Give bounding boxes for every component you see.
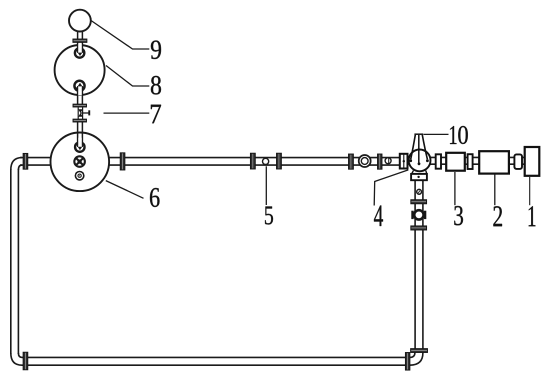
drop pipe upper flange <box>411 200 427 204</box>
valve 4 bottom neck <box>412 171 427 174</box>
nozzle top of vessel 8 <box>73 44 86 59</box>
label 8 <box>151 76 161 95</box>
leader line 10 <box>424 133 449 135</box>
component 1 box <box>525 147 540 176</box>
label 10 <box>450 126 457 144</box>
leader line 4 <box>374 170 408 206</box>
valve 7 upper flange <box>73 104 87 107</box>
label 4 <box>374 205 383 226</box>
wire: pipe 8 to valve 7 <box>78 91 83 105</box>
wire: main horizontal pipe vessel 6 to valve 4 <box>109 158 400 166</box>
elbow top-left <box>11 158 22 170</box>
fitting middle of vessel 6 <box>73 155 86 168</box>
leader line 8 <box>106 66 149 87</box>
label 2 <box>493 206 502 226</box>
wire: bottom horizontal pipe <box>22 357 406 365</box>
label 3 <box>454 206 463 225</box>
fitting bottom of vessel 6 <box>75 171 85 181</box>
wire: left vertical pipe <box>11 169 19 354</box>
leader line 2 <box>494 175 496 206</box>
vessel 9 (small top tank) <box>69 10 91 32</box>
valve 4 body circle <box>409 150 431 172</box>
flange after meter <box>378 154 383 169</box>
label 9 <box>151 41 161 59</box>
bottom-right vertical flange on bottom pipe <box>405 353 410 371</box>
label 7 <box>151 105 161 124</box>
wire: right vertical pipe <box>415 181 423 354</box>
leader line 3 <box>454 172 456 205</box>
wire: left horizontal pipe from elbow to vessel 6 <box>20 158 51 166</box>
leader line 6 <box>106 181 144 199</box>
wire: horizontal pipe valve 4 to component 1 <box>430 157 525 164</box>
nozzle top of vessel 6 <box>73 138 86 153</box>
flange before meter <box>349 154 354 169</box>
flange between 2 and 1 <box>514 154 522 169</box>
valve 4 cone <box>409 134 428 165</box>
wire: pipe 9 to 8 <box>78 31 83 51</box>
leader line 7 <box>104 112 150 114</box>
flange left elbow top <box>23 153 28 169</box>
elbow bottom-right <box>410 353 423 365</box>
bottom-right horizontal flange on vertical pipe <box>411 349 428 353</box>
bottom-left flange <box>23 352 28 370</box>
label 6 <box>150 188 160 207</box>
small circle on drop pipe <box>417 189 422 194</box>
flange between 3 and 2 <box>468 154 473 169</box>
valve 4 bottom box <box>411 174 427 180</box>
leader line 5 <box>265 166 267 205</box>
flange below vessel 9 <box>73 39 87 42</box>
valve 4 left connector box <box>400 154 408 169</box>
component 5 left flange <box>250 153 255 169</box>
vessel 6 (large tank) <box>51 133 110 192</box>
vessel 8 (middle tank) <box>55 45 105 95</box>
leader line 1 <box>529 177 531 205</box>
component 3 box <box>446 153 465 171</box>
valve 7 body <box>78 107 83 119</box>
component 2 box <box>479 151 509 173</box>
elbow bottom-left <box>11 353 22 365</box>
meter double circle <box>359 155 371 167</box>
leader line 9 <box>91 21 149 50</box>
drop pipe valve double circle <box>411 209 426 221</box>
valve 4 right flange <box>436 154 441 168</box>
label 1 <box>529 206 536 226</box>
label 5 <box>265 206 273 224</box>
component 5 right flange <box>277 153 282 169</box>
component 5 sight glass circle <box>263 158 269 164</box>
wire: pipe valve 7 to vessel 6 <box>78 121 83 144</box>
small gauge circle <box>385 158 391 164</box>
valve 7 lower flange <box>73 119 87 122</box>
valve 7 stem and handle <box>81 110 91 115</box>
flange right of vessel 6 <box>120 153 125 170</box>
nozzle bottom of vessel 8 <box>73 80 87 96</box>
drop pipe lower flange <box>411 226 427 230</box>
